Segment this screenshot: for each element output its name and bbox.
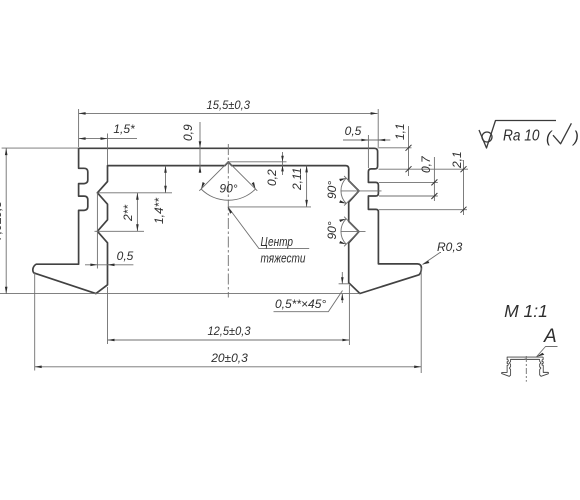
svg-text:20±0,3: 20±0,3 bbox=[210, 351, 248, 365]
svg-text:90°: 90° bbox=[219, 182, 237, 196]
svg-text:A: A bbox=[543, 326, 557, 347]
dimension 2,11 bbox=[228, 206, 311, 208]
centroid leader and label bbox=[228, 207, 309, 249]
bottom seat line bbox=[0, 293, 360, 295]
dimension 0,5 tooth depth bbox=[96, 193, 98, 269]
mini profile centerline bbox=[525, 356, 527, 382]
svg-text:0,5: 0,5 bbox=[117, 249, 134, 263]
dimension 1,1 bbox=[378, 147, 412, 149]
svg-text:90°: 90° bbox=[325, 181, 339, 199]
dimension 1,5* bbox=[107, 134, 109, 166]
mini profile thumbnail (scaled copy of main outline) bbox=[502, 357, 549, 376]
R0,3 leader bbox=[423, 253, 442, 265]
svg-text:0,7: 0,7 bbox=[419, 155, 433, 173]
svg-text:1,4**: 1,4** bbox=[152, 198, 166, 224]
svg-text:Ra 10: Ra 10 bbox=[503, 128, 540, 145]
dimension 1,4** bbox=[97, 192, 172, 194]
dimension 2** bbox=[95, 230, 145, 232]
90° groove 1 right bbox=[344, 176, 359, 206]
svg-text:2,1: 2,1 bbox=[450, 151, 464, 169]
dimension 0,5 top right bbox=[367, 135, 369, 168]
svg-text:12,5±0,3: 12,5±0,3 bbox=[208, 324, 251, 338]
svg-text:2,11: 2,11 bbox=[290, 168, 304, 191]
surface roughness symbol Ra 10 bbox=[479, 121, 556, 149]
dimension 20±0,3 bbox=[34, 272, 36, 371]
svg-text:R0,3: R0,3 bbox=[437, 240, 463, 254]
svg-text:Центр: Центр bbox=[261, 235, 294, 249]
svg-text:M 1:1: M 1:1 bbox=[504, 301, 548, 321]
90° dimension top notch bbox=[199, 162, 257, 191]
svg-text:тяжести: тяжести bbox=[261, 252, 306, 266]
svg-text:(: ( bbox=[546, 129, 553, 146]
svg-text:0,5**×45°: 0,5**×45° bbox=[275, 297, 326, 311]
svg-text:90°: 90° bbox=[325, 221, 339, 239]
dimension 0,7 bbox=[379, 181, 438, 183]
center line (axis) bbox=[227, 144, 229, 298]
dimension 12,5±0,3 bbox=[107, 287, 109, 344]
dimension 0,2 bbox=[228, 161, 286, 163]
svg-text:1,1: 1,1 bbox=[393, 123, 407, 140]
svg-text:0,5: 0,5 bbox=[345, 124, 362, 138]
svg-text:7,6±0,3: 7,6±0,3 bbox=[0, 201, 4, 241]
dimension 2,1 bbox=[379, 209, 467, 211]
svg-text:0,2: 0,2 bbox=[265, 169, 279, 186]
dimension 0,9 bbox=[199, 122, 201, 173]
90° groove 2 right bbox=[344, 217, 359, 247]
svg-text:): ) bbox=[572, 129, 579, 146]
svg-text:2**: 2** bbox=[121, 205, 135, 222]
svg-text:15,5±0,3: 15,5±0,3 bbox=[207, 98, 251, 112]
svg-text:0,9: 0,9 bbox=[181, 124, 195, 141]
left height dimension bbox=[2, 147, 79, 149]
profile outline bbox=[33, 148, 422, 293]
0,5**×45° chamfer dimension bbox=[339, 283, 349, 285]
dimension 15,5±0,3 bbox=[78, 109, 80, 147]
svg-text:1,5*: 1,5* bbox=[113, 122, 135, 136]
